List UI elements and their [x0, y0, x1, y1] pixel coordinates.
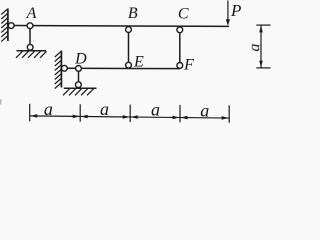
svg-text:P: P [230, 1, 241, 20]
svg-text:A: A [26, 5, 37, 22]
svg-text:a: a [44, 99, 53, 119]
svg-text:a: a [246, 43, 263, 51]
svg-text:a: a [151, 100, 160, 120]
svg-text:a: a [100, 99, 109, 119]
svg-text:C: C [178, 6, 189, 23]
svg-text:B: B [128, 5, 138, 22]
svg-text:a: a [200, 100, 209, 120]
svg-text:E: E [133, 54, 144, 71]
svg-text:D: D [74, 51, 87, 68]
svg-text:F: F [183, 57, 194, 74]
